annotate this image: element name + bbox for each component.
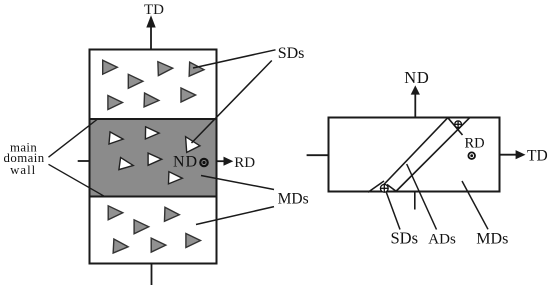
tick: left edge of left sample [78,160,90,162]
SD triangle T2 (top band) [128,74,143,88]
leader line: MDs to gray band [201,176,274,190]
leader line: SDs to bottom circled-plus [386,192,400,230]
tick: bottom edge of right sample [414,192,416,210]
SD triangle B5 (bottom band) [151,238,166,252]
svg-text:TD: TD [527,148,548,165]
ND axis arrow (right diagram) [411,85,420,117]
circled-plus symbol (top of wall) [455,121,462,128]
MD triangle W6 (gray band, white) [168,172,182,185]
svg-text:RD: RD [465,135,485,151]
svg-text:ADs: ADs [428,231,456,247]
SD triangle T3 (top band) [158,61,173,76]
leader line: main domain wall to lower boundary [49,164,106,196]
domain wall band: top end cap [448,118,463,135]
svg-text:ND: ND [404,68,429,87]
domain wall band: left line [382,118,448,187]
MD triangle W5 (gray band, white) [148,153,162,165]
svg-text:MDs: MDs [476,230,508,247]
MD triangle W1 (gray band, white) [109,132,124,145]
MD triangle W3 (gray band, white, leader target) [186,137,200,153]
label: main domain wall (3 lines) [4,141,45,178]
domain wall band: bottom-left wedge line [368,181,384,192]
leader line: SDs to top-band triangle [193,50,276,68]
SD triangle B2 (bottom band) [134,220,149,234]
svg-text:RD: RD [234,155,255,171]
right sample rectangle [329,118,500,192]
SD triangle B3 (bottom band) [164,207,179,222]
tick: left edge of right sample [307,154,329,156]
TD axis arrow (top) [146,15,155,49]
RD axis arrow (left diagram) [217,157,234,166]
RD out-of-plane symbol (circle-dot, right diagram) [468,152,475,159]
MD triangle W2 (gray band, white) [145,127,159,139]
bottom axis stub line [151,264,153,286]
svg-text:wall: wall [10,163,36,177]
svg-text:ND: ND [173,154,198,171]
circled-plus symbol (bottom of wall) [380,184,388,192]
SD triangle T4 (top band, leader target) [189,62,204,77]
svg-text:TD: TD [144,2,164,18]
leader line: SDs to gray-band triangle [192,61,272,144]
domain wall band: bottom end cap [387,185,396,192]
leader line: ADs to wall band [407,164,437,230]
svg-text:MDs: MDs [278,191,309,208]
SD triangle B4 (bottom band) [113,239,128,254]
left sample outer rectangle [90,50,217,264]
SD triangle T5 (top band) [108,96,123,110]
ND out-of-plane symbol (circle-dot) [200,159,207,166]
SD triangle T6 (top band) [144,93,159,108]
leader line: MDs to bottom band [196,207,274,225]
SD triangle B1 (bottom band) [108,206,123,220]
leader line: MDs to right sample interior [462,181,488,229]
leader line: main domain wall to upper boundary [49,120,98,158]
svg-text:SDs: SDs [278,45,305,62]
SD triangle B6 (bottom band) [186,234,201,248]
svg-text:SDs: SDs [391,228,419,247]
SD triangle T7 (top band) [181,88,196,102]
domain wall band: right line [396,118,470,192]
SD triangle T1 (top band) [103,60,118,74]
MD triangle W4 (gray band, white) [119,158,134,172]
main domain (gray band) [90,119,217,197]
TD axis arrow (right diagram) [500,150,526,159]
